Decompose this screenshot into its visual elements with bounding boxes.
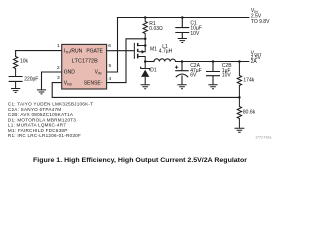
svg-text:M1: M1 (150, 47, 157, 53)
svg-text:M1: FAIRCHILD FDC638P: M1: FAIRCHILD FDC638P (8, 128, 68, 133)
inductor L1 (154, 59, 176, 62)
svg-text:L1: MURATA LQM6C-4R7: L1: MURATA LQM6C-4R7 (8, 123, 66, 128)
node: C2A junction (181, 60, 184, 63)
svg-text:3: 3 (57, 75, 60, 81)
ground (C2A) (177, 85, 186, 89)
wire: pin 6 PGATE to gate (107, 50, 134, 52)
capacitor 220pF (9, 77, 23, 82)
svg-text:C2A: SANYO 6TPA47M: C2A: SANYO 6TPA47M (8, 107, 61, 112)
svg-text:SENSE–: SENSE– (84, 80, 103, 87)
node: switch node junction (144, 60, 147, 63)
svg-text:LTC1772B: LTC1772B (72, 59, 99, 65)
svg-text:10V: 10V (222, 73, 232, 79)
capacitor C2A electrolytic (175, 62, 189, 85)
body arrow of M1 (142, 50, 145, 54)
svg-text:6: 6 (108, 43, 111, 49)
node: R1 top junction (144, 16, 147, 19)
svg-text:174k: 174k (243, 77, 254, 83)
wire: switch node to L1 start (145, 61, 154, 63)
ground (C1) (178, 39, 187, 43)
svg-text:2A: 2A (251, 59, 258, 65)
svg-text:10V: 10V (190, 31, 200, 37)
svg-text:0.03Ω: 0.03Ω (149, 26, 163, 32)
wire: pin 5 VIN to rail (107, 18, 118, 73)
svg-text:5: 5 (109, 63, 112, 69)
svg-text:4.7µH: 4.7µH (159, 48, 173, 54)
body stub (138, 46, 145, 52)
svg-text:1: 1 (57, 43, 60, 49)
node: source tie junction (144, 44, 147, 47)
svg-text:D1: MOTOROLA MBRM120T3: D1: MOTOROLA MBRM120T3 (8, 117, 76, 122)
svg-text:C1: TAIYO YUDEN LMK325BJ106K-T: C1: TAIYO YUDEN LMK325BJ106K-T (8, 102, 93, 107)
drain stub (138, 57, 145, 62)
svg-text:80.6k: 80.6k (243, 110, 256, 116)
wire: pin 3 VFB feedback run (52, 83, 239, 98)
channel dash body (137, 49, 139, 52)
resistor 10k (13, 57, 17, 77)
wire: pin 1 ITH/RUN to RC (16, 51, 62, 57)
wire: pin 4 SENSE to R1 bottom (107, 39, 146, 83)
svg-text:R1: IRC LRC-LR1206-01-R030F: R1: IRC LRC-LR1206-01-R030F (8, 133, 81, 138)
svg-text:PGATE: PGATE (86, 48, 103, 54)
ground (pin 2 GND) (37, 90, 46, 94)
plus sign of C2A (175, 66, 178, 69)
svg-text:220pF: 220pF (24, 77, 38, 83)
capacitor C1 (175, 18, 189, 39)
ground (80.6k) (234, 128, 244, 132)
wire: VIN top rail (118, 17, 249, 19)
node: divider top junction (238, 60, 241, 63)
node: C1 top junction (181, 16, 184, 19)
resistor 174k (237, 62, 241, 98)
gate bar (133, 43, 135, 59)
svg-text:2: 2 (57, 65, 60, 71)
ground (below 220pF) (11, 81, 20, 92)
node: C2B junction (212, 60, 215, 63)
capacitor C2B (206, 62, 220, 85)
svg-text:TO 9.8V: TO 9.8V (251, 19, 270, 25)
op-amp U1: LTC1772B IC body (62, 44, 107, 89)
svg-text:Figure 1. High Efficiency, Hig: Figure 1. High Efficiency, High Output C… (33, 157, 248, 164)
source stub (138, 39, 145, 46)
node: R1 bottom / sense junction (144, 38, 147, 41)
resistor R1 0.03ohm (143, 18, 147, 39)
svg-text:4: 4 (109, 76, 112, 82)
svg-text:10k: 10k (20, 58, 29, 64)
node: feedback node junction (238, 96, 241, 99)
ground (C2B) (208, 85, 217, 89)
wire: pin 2 GND down (42, 72, 62, 90)
ground (D1) (141, 85, 150, 89)
resistor 80.6k (237, 97, 241, 128)
channel dash drain (137, 54, 139, 59)
wire: output rail after L1 (176, 61, 249, 63)
svg-text:1772 F01a: 1772 F01a (255, 136, 271, 140)
svg-text:D1: D1 (150, 67, 157, 73)
diode D1 schottky (141, 62, 150, 85)
svg-text:GND: GND (64, 70, 76, 76)
transistor M1 PMOS (134, 39, 145, 62)
svg-text:C2B: AVX 0805ZC105KAT1A: C2B: AVX 0805ZC105KAT1A (8, 112, 74, 117)
svg-text:6V: 6V (190, 73, 197, 79)
channel dash source (137, 43, 139, 46)
